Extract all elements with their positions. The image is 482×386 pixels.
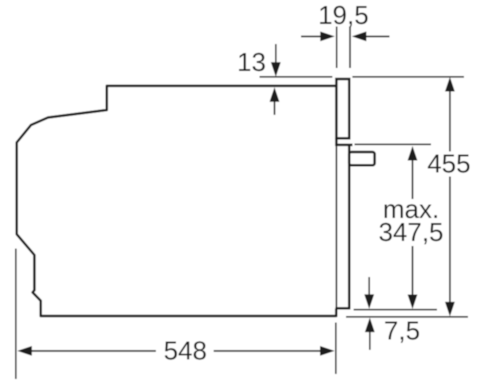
dim 13 lower arrow line: [274, 100, 276, 115]
niche floor line: [346, 316, 468, 318]
arrow 548 right: [320, 346, 335, 356]
extension line door top: [355, 143, 432, 145]
fascia/door joint left edge: [335, 138, 338, 146]
door rear face: [335, 146, 337, 308]
dim 455 line upper: [449, 90, 451, 152]
arrow 13 down: [271, 62, 281, 77]
arrow 455 down: [445, 302, 455, 317]
svg-text:347,5: 347,5: [378, 217, 443, 247]
extension line 548 left: [15, 249, 17, 379]
arrow 347,5 up: [408, 146, 418, 161]
svg-text:455: 455: [427, 149, 470, 179]
door top edge: [335, 144, 352, 147]
dim 7,5 lower arrow line: [369, 331, 371, 350]
svg-text:13: 13: [237, 47, 266, 77]
extension line above fascia left: [336, 27, 338, 69]
door bottom edge: [335, 307, 350, 310]
arrow 7,5 up: [365, 318, 375, 333]
dim 13 upper arrow line: [275, 44, 277, 64]
dim 455 line lower: [449, 177, 451, 304]
extension line fascia top left: [260, 76, 333, 78]
arrow 19,5 right: [352, 32, 367, 42]
svg-text:548: 548: [164, 336, 207, 366]
arrow 347,5 down: [408, 295, 418, 310]
arrow 548 left: [17, 346, 32, 356]
oven body outline: [17, 86, 337, 316]
arrow 455 up: [445, 77, 455, 92]
dim 548 line left: [30, 350, 156, 352]
dim 347,5 line lower: [412, 246, 414, 296]
dim 19,5 right tail: [366, 35, 390, 37]
arrow 13 up: [270, 87, 280, 102]
dim 19,5 left tail: [301, 35, 321, 37]
door front face: [348, 144, 351, 309]
dim 347,5 line upper: [412, 159, 414, 199]
extension line 548 right: [335, 323, 337, 375]
control fascia panel: [336, 79, 349, 138]
dim 7,5 upper arrow line: [368, 277, 370, 296]
dim 548 line right: [214, 350, 321, 352]
arrow 19,5 left: [320, 32, 335, 42]
extension line door bottom: [354, 309, 437, 311]
door handle: [349, 152, 374, 165]
arrow 7,5 down: [364, 294, 374, 309]
svg-text:7,5: 7,5: [384, 316, 420, 346]
extension line fascia top right: [352, 76, 464, 78]
svg-text:19,5: 19,5: [318, 0, 369, 30]
extension line above fascia right: [349, 27, 351, 69]
